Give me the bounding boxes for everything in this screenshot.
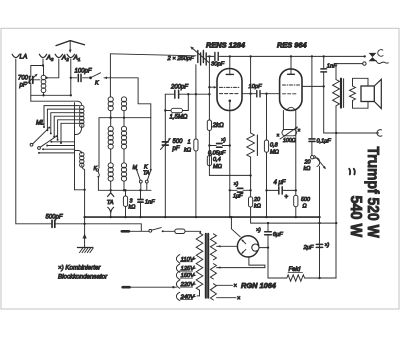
svg-text:4 μF: 4 μF	[274, 180, 286, 186]
resistor 2k	[207, 120, 224, 175]
wire grid arrow	[209, 86, 216, 89]
wire heater tap	[217, 266, 265, 268]
svg-text:500: 500	[173, 139, 184, 145]
wire chassis bus	[85, 216, 320, 218]
wire coil box left side	[74, 103, 76, 190]
resistor 1k	[184, 65, 198, 217]
svg-text:0,1μF: 0,1μF	[317, 139, 332, 145]
potentiometer 100 hum	[277, 111, 301, 144]
transformer T2 secondary HV	[210, 234, 216, 260]
svg-text:700: 700	[18, 76, 29, 82]
wire RGN filament taps	[217, 284, 241, 303]
svg-text:1: 1	[188, 140, 191, 146]
wire mains switch line	[129, 224, 201, 233]
svg-text:2: 2	[65, 57, 69, 62]
wire cathode column	[229, 101, 231, 217]
svg-text:1: 1	[78, 57, 81, 62]
svg-text:kΩ: kΩ	[129, 205, 136, 211]
svg-text:2μF: 2μF	[303, 245, 314, 251]
wire K switch branch	[138, 78, 151, 118]
resistor 3k	[123, 190, 135, 217]
svg-text:pF: pF	[172, 146, 180, 152]
switch K (antenna)	[90, 73, 139, 87]
capacitor 700pF trimmer	[18, 74, 40, 89]
svg-text:200pF: 200pF	[170, 85, 188, 91]
svg-text:20: 20	[253, 197, 260, 203]
capacitor 1uF	[230, 182, 251, 200]
terminal LA	[12, 54, 27, 61]
band switch lever 2	[38, 135, 58, 149]
svg-text:TA: TA	[107, 200, 114, 206]
svg-text:M: M	[133, 165, 138, 171]
wire shield left	[98, 118, 100, 168]
coil L4 chain left	[108, 97, 113, 193]
terminal A3	[39, 54, 54, 62]
capacitor 100pF	[71, 69, 92, 82]
tap 125V	[176, 264, 196, 272]
svg-text:500pF: 500pF	[46, 215, 63, 221]
svg-text:×) Kombinierter: ×) Kombinierter	[58, 265, 101, 272]
coil L1 antenna coil	[41, 66, 46, 96]
terminal A2	[55, 54, 69, 62]
wire ground drop	[83, 190, 87, 248]
footnote	[58, 265, 108, 281]
jack hook lower	[377, 130, 382, 137]
svg-text:20: 20	[304, 160, 311, 166]
coil L5 chain right	[121, 97, 126, 191]
svg-text:MΩ: MΩ	[270, 150, 280, 156]
svg-text:100Ω: 100Ω	[283, 138, 296, 144]
svg-text:RES 964: RES 964	[277, 41, 307, 50]
svg-text:kΩ: kΩ	[184, 148, 192, 154]
resistor Feld field coil	[268, 267, 336, 281]
svg-text:3: 3	[51, 57, 54, 62]
wire anode feed	[217, 245, 238, 247]
capacitor 6uF	[256, 223, 283, 278]
wire coil tap row	[99, 117, 151, 119]
wire ground column upper	[84, 169, 86, 190]
wire grid row	[165, 93, 209, 95]
switch M	[133, 165, 143, 191]
ground symbol	[78, 248, 94, 253]
capacitor 0.1uF	[309, 56, 331, 155]
coil L2 band coil upper	[75, 101, 85, 134]
svg-text:×): ×)	[234, 182, 239, 188]
wire headphone row	[324, 132, 379, 134]
coil L3 band coil lower	[75, 150, 85, 169]
wire form feed row	[31, 100, 78, 102]
wire anode rail	[207, 55, 365, 57]
svg-text:MΩ: MΩ	[213, 164, 223, 170]
svg-text:Trumpf 520 W: Trumpf 520 W	[364, 147, 382, 239]
wire anode out	[302, 85, 324, 87]
capacitor C tuning gang	[190, 46, 209, 65]
capacitor 200pF	[170, 85, 188, 99]
svg-text:K: K	[95, 81, 99, 87]
band switch fan wires lower	[38, 141, 75, 154]
svg-text:2 × 250pF: 2 × 250pF	[167, 56, 195, 62]
fuse	[175, 229, 185, 234]
tap 150V	[176, 271, 196, 279]
transformer T1 output	[333, 64, 368, 278]
wire osc left column	[109, 54, 111, 97]
wire switch common row	[75, 189, 85, 191]
resistor 0.4M	[207, 156, 222, 171]
svg-text:540 W: 540 W	[347, 196, 365, 238]
resistor 1.5M	[165, 94, 188, 120]
svg-text:500: 500	[301, 197, 310, 203]
svg-text:Ω: Ω	[303, 204, 307, 210]
tube U2 RES964	[280, 56, 302, 110]
ditto mark	[349, 169, 355, 175]
capacitor 500pF trimmer	[161, 138, 184, 152]
wire bias row	[209, 174, 250, 176]
speaker LS	[361, 79, 381, 108]
svg-text:×: ×	[234, 284, 238, 290]
transformer core	[205, 234, 207, 298]
resistor 500	[294, 134, 310, 218]
wire tuned line down	[164, 94, 166, 217]
resistor 0.8M	[264, 94, 279, 217]
band switch lever 1	[30, 127, 50, 147]
svg-text:+: +	[285, 194, 289, 201]
svg-text:×: ×	[277, 133, 280, 139]
svg-text:6μF: 6μF	[273, 232, 283, 238]
wire coil bottom rail	[31, 94, 71, 96]
jack TA phono	[107, 193, 114, 217]
wire 240V loop	[197, 290, 199, 296]
switch K wave	[94, 166, 100, 190]
svg-text:100pF: 100pF	[75, 69, 92, 75]
svg-text:1,5MΩ: 1,5MΩ	[170, 115, 188, 121]
tube U1 RENS1284	[217, 56, 242, 110]
tap 110V	[176, 255, 196, 263]
svg-text:×: ×	[237, 296, 241, 302]
svg-text:30pF: 30pF	[211, 62, 225, 68]
capacitor 500pF mains	[16, 215, 142, 228]
svg-text:×): ×)	[221, 138, 226, 144]
svg-text:RGN 1064: RGN 1064	[241, 281, 276, 290]
svg-text:kΩ: kΩ	[304, 166, 311, 172]
wire A1 lead down	[70, 59, 72, 95]
svg-text:×): ×)	[325, 243, 330, 249]
svg-text:2kΩ: 2kΩ	[212, 123, 224, 129]
switch mains	[149, 228, 164, 233]
wire A3 lead	[31, 59, 43, 77]
svg-text:LA: LA	[20, 54, 28, 61]
svg-text:pF: pF	[19, 83, 27, 89]
svg-text:1nF: 1nF	[145, 200, 155, 206]
capacitor 1nF anode	[321, 56, 337, 133]
tap 240V	[176, 292, 196, 300]
transformer T2 mains primary	[196, 233, 203, 290]
svg-text:Blockkondensator: Blockkondensator	[58, 274, 108, 281]
switch K TA	[143, 118, 152, 191]
speaker jack	[336, 50, 388, 66]
svg-text:TA: TA	[143, 170, 150, 176]
svg-text:Feld: Feld	[289, 267, 301, 273]
svg-text:×: ×	[298, 128, 301, 134]
capacitor 4uF	[267, 180, 296, 201]
capacitor 2uF	[303, 243, 330, 252]
capacitor 1nF block	[138, 190, 155, 217]
mains plug bottom	[123, 286, 130, 289]
resistor volume pot	[247, 56, 258, 196]
transformer T2 secondary heater	[210, 284, 216, 300]
capacitor 30pF	[211, 52, 225, 67]
svg-text:0,4: 0,4	[213, 157, 221, 163]
svg-text:0,8: 0,8	[270, 143, 279, 149]
band switch fan wires upper	[43, 106, 80, 144]
mains plug top	[122, 230, 129, 233]
wire screen column	[208, 56, 210, 120]
svg-text:1μF: 1μF	[233, 194, 243, 200]
capacitor 0.05uF	[208, 138, 230, 157]
svg-text:K: K	[94, 166, 98, 172]
wire mains feed	[130, 286, 177, 288]
wire LA lead down	[15, 59, 17, 224]
wire top rail left	[110, 54, 196, 56]
potentiometer 20k tone	[304, 156, 327, 279]
resistor 20k	[249, 197, 337, 223]
transformer T2 secondary mid	[210, 264, 216, 279]
tube V3 RGN1064 rectifier	[231, 217, 268, 268]
svg-text:kΩ: kΩ	[254, 204, 261, 210]
wire A2 lead	[47, 59, 59, 78]
svg-text:×): ×)	[256, 228, 261, 234]
capacitor 10pF	[242, 84, 280, 97]
svg-text:RENS 1284: RENS 1284	[206, 41, 245, 50]
antenna symbol	[56, 41, 85, 53]
terminal A1	[67, 54, 81, 62]
tap 220V	[176, 280, 196, 288]
